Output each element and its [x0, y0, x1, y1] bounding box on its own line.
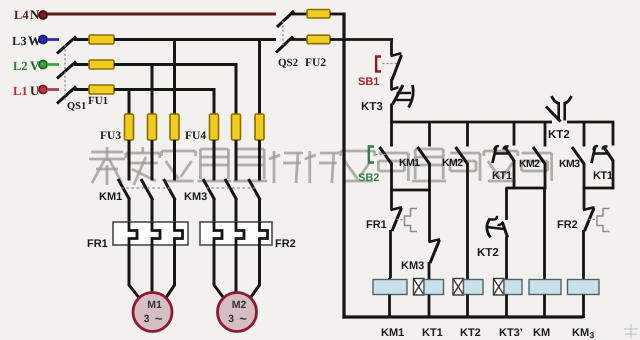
- svg-text:KT2: KT2: [477, 247, 499, 259]
- svg-text:M1: M1: [147, 299, 162, 311]
- svg-text:FR1: FR1: [366, 219, 387, 231]
- svg-text:FU1: FU1: [88, 95, 108, 107]
- svg-text:KM1: KM1: [99, 191, 122, 203]
- svg-text:KM3: KM3: [401, 260, 424, 272]
- svg-text:L2: L2: [13, 59, 28, 73]
- svg-text:KT1: KT1: [422, 327, 443, 339]
- svg-text:FU4: FU4: [185, 130, 206, 142]
- svg-text:3: 3: [144, 313, 150, 325]
- svg-text:KM1: KM1: [381, 327, 404, 339]
- svg-text:FU2: FU2: [305, 57, 326, 69]
- svg-text:KT1: KT1: [492, 170, 512, 182]
- svg-text:KM2: KM2: [442, 157, 463, 169]
- svg-text:~: ~: [239, 311, 247, 326]
- svg-text:FR1: FR1: [87, 238, 108, 250]
- svg-text:KT2: KT2: [548, 129, 570, 141]
- svg-text:~: ~: [155, 311, 163, 326]
- svg-text:3: 3: [590, 330, 595, 340]
- svg-text:KM1: KM1: [399, 157, 420, 169]
- svg-text:FR2: FR2: [275, 238, 296, 250]
- svg-text:FR2: FR2: [557, 219, 578, 231]
- svg-text:KM: KM: [533, 327, 550, 339]
- svg-text:QS1: QS1: [67, 101, 86, 112]
- svg-text:FU3: FU3: [100, 130, 121, 142]
- svg-text:SB1: SB1: [358, 76, 379, 88]
- svg-text:QS2: QS2: [278, 57, 299, 69]
- svg-text:KM2: KM2: [519, 158, 540, 170]
- svg-text:L3: L3: [12, 34, 27, 48]
- svg-text:KT2: KT2: [460, 327, 481, 339]
- svg-text:SB2: SB2: [358, 172, 379, 184]
- svg-text:3: 3: [228, 313, 234, 325]
- svg-text:KM3: KM3: [184, 191, 207, 203]
- svg-text:M2: M2: [232, 299, 247, 311]
- svg-text:KT1: KT1: [593, 170, 613, 182]
- svg-text:KT3ʼ: KT3ʼ: [499, 327, 523, 339]
- svg-text:L4: L4: [14, 8, 29, 22]
- svg-text:KM3: KM3: [559, 158, 580, 170]
- svg-text:KM: KM: [572, 327, 589, 339]
- svg-text:L1: L1: [13, 84, 28, 98]
- svg-text:KT3: KT3: [361, 101, 383, 113]
